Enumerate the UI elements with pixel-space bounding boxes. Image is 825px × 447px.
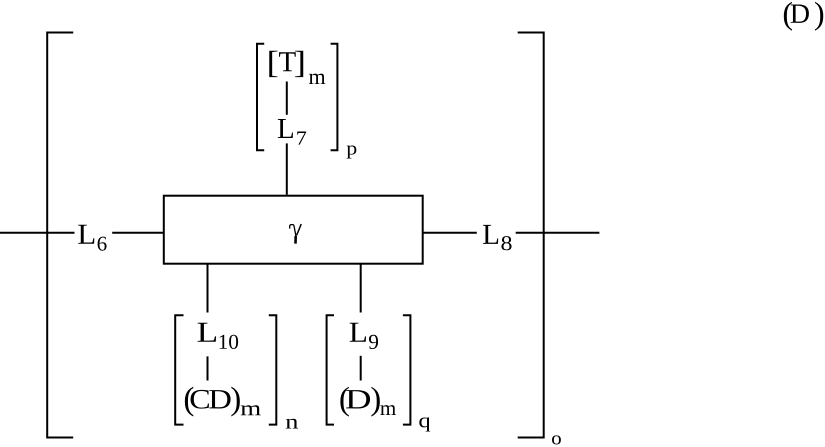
top group left bracket <box>257 44 264 150</box>
subscript 8 <box>501 236 511 250</box>
label L8 - L <box>483 225 498 244</box>
top group right bracket <box>331 44 338 150</box>
bottom right group left bracket <box>327 315 334 424</box>
label [T] - bracket left <box>269 51 277 77</box>
subscript 9 <box>369 335 378 349</box>
subscript o <box>552 435 561 444</box>
subscript 10 <box>220 335 239 349</box>
wire box to L9 <box>360 264 362 313</box>
wire left edge to L6 <box>0 232 75 234</box>
wire box to L10 <box>207 264 209 313</box>
label (CD) - letter C <box>191 390 209 409</box>
label (D) bottom - paren left <box>340 387 348 417</box>
outer left bracket <box>47 33 73 438</box>
gamma core box <box>164 196 423 264</box>
wire L7 to box <box>286 143 288 194</box>
label (CD) - paren right <box>231 387 239 417</box>
subscript m of (CD) <box>241 405 261 415</box>
label (CD) - paren left <box>185 387 193 417</box>
label (D) bottom - paren right <box>371 387 379 417</box>
bottom left group right bracket <box>269 315 277 424</box>
label L9 - L <box>350 323 366 342</box>
wire L9 to (D)m <box>360 356 362 381</box>
label gamma <box>290 224 302 244</box>
label (D) top right - paren right <box>815 2 823 31</box>
subscript n <box>286 419 298 429</box>
subscript 6 <box>98 237 107 251</box>
label [T] - bracket right <box>295 51 303 77</box>
label (D) bottom - letter D <box>346 390 370 408</box>
subscript q <box>419 417 430 431</box>
subscript p <box>347 145 357 158</box>
subscript m of (D) <box>380 405 396 415</box>
wire L8 through right bracket <box>516 232 600 234</box>
subscript 7 <box>297 132 306 145</box>
wire box to L8 <box>424 232 477 234</box>
label [T] - letter T <box>279 52 296 71</box>
label L10 - L <box>198 323 216 342</box>
label (D) top right - letter D <box>791 4 809 22</box>
label (D) top right - paren left <box>784 2 792 31</box>
subscript m of [T] <box>309 74 325 84</box>
wire L6 to box <box>112 232 163 234</box>
wire L10 to (CD)m <box>207 356 209 380</box>
label L6 - L <box>78 225 94 244</box>
outer right bracket <box>518 33 544 438</box>
label L7 - L <box>278 119 293 138</box>
label (CD) - letter D <box>209 390 230 408</box>
bottom left group left bracket <box>175 315 183 424</box>
bottom right group right bracket <box>403 315 411 424</box>
wire T to L7 <box>286 82 288 115</box>
